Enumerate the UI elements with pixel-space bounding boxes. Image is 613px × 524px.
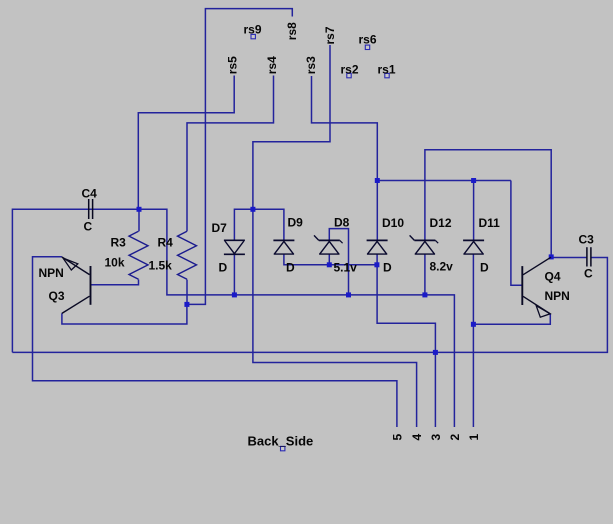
wire rs5 to R3-top node bbox=[138, 76, 234, 210]
svg-text:rs5: rs5 bbox=[226, 56, 240, 74]
wire D11 top feed bbox=[473, 181, 475, 241]
svg-text:D: D bbox=[383, 261, 392, 275]
pin square rs6 bbox=[365, 45, 369, 49]
svg-text:1.5k: 1.5k bbox=[149, 259, 173, 273]
svg-text:D: D bbox=[480, 261, 489, 275]
svg-text:rs2: rs2 bbox=[341, 62, 359, 76]
svg-text:C: C bbox=[84, 220, 93, 234]
wire D7 top to D9 top bbox=[234, 209, 284, 240]
svg-text:rs6: rs6 bbox=[359, 33, 377, 47]
wire rs3 to D10 top bbox=[312, 76, 378, 240]
diode D7 (pointing down) bbox=[224, 240, 245, 254]
svg-text:NPN: NPN bbox=[39, 266, 64, 280]
diode D9 (pointing up) bbox=[273, 240, 294, 254]
pin square rs2 bbox=[347, 73, 351, 77]
junction D11 bottom / terminal 1 bbox=[471, 322, 476, 327]
svg-text:rs7: rs7 bbox=[323, 26, 337, 44]
junction R3 top node bbox=[137, 207, 142, 212]
diode D11 (pointing up) bbox=[463, 240, 484, 254]
svg-text:rs1: rs1 bbox=[378, 62, 396, 76]
junction D10 line at row y264.8 bbox=[374, 262, 379, 267]
svg-text:rs3: rs3 bbox=[304, 56, 318, 74]
wire D7 bottom feed bbox=[233, 254, 235, 295]
diode D12 (zener, pointing up) bbox=[410, 235, 439, 254]
svg-text:D: D bbox=[219, 261, 228, 275]
junction D11 top at row y180.5 bbox=[471, 178, 476, 183]
wire row y180.5 D10-D11-Q4 bbox=[377, 180, 511, 182]
svg-text:D11: D11 bbox=[479, 216, 501, 230]
svg-text:NPN: NPN bbox=[545, 289, 570, 303]
junction D12 bottom bbox=[422, 292, 427, 297]
svg-text:C4: C4 bbox=[82, 187, 98, 201]
svg-text:3: 3 bbox=[429, 434, 443, 441]
svg-text:R3: R3 bbox=[111, 236, 127, 250]
svg-text:8.2v: 8.2v bbox=[430, 260, 454, 274]
svg-text:D12: D12 bbox=[430, 216, 452, 230]
wire R3 bottom to Q3 base bbox=[91, 280, 139, 285]
wire D8 top hook to row y295 bbox=[329, 229, 348, 295]
svg-text:5: 5 bbox=[390, 434, 404, 441]
svg-text:rs9: rs9 bbox=[244, 23, 262, 37]
wire R4 bottom to node bbox=[186, 280, 188, 305]
svg-text:D: D bbox=[286, 261, 295, 275]
svg-text:R4: R4 bbox=[158, 236, 174, 250]
wire D9 bottom and row y264.8 bbox=[284, 254, 377, 265]
wire D12 bottom feed bbox=[424, 254, 426, 295]
svg-text:D7: D7 bbox=[212, 221, 228, 235]
svg-text:10k: 10k bbox=[105, 256, 125, 270]
svg-text:D9: D9 bbox=[288, 216, 304, 230]
transistor Q4 bbox=[522, 257, 551, 317]
wire C3 left to Q4 collector node up to D12 top bbox=[425, 150, 587, 258]
wire D11 bottom to terminal 1 bbox=[472, 254, 474, 427]
wire D8 bottom feed bbox=[328, 254, 330, 265]
wire Q4 base feed bbox=[511, 181, 522, 286]
svg-text:Q3: Q3 bbox=[49, 289, 65, 303]
diode D8 (zener, pointing up) bbox=[314, 235, 343, 254]
svg-text:4: 4 bbox=[410, 434, 424, 441]
junction D8 hook at row y295 bbox=[346, 292, 351, 297]
pin square rs1 bbox=[385, 73, 389, 77]
wire D10 bottom to terminal 3 bbox=[377, 254, 435, 427]
svg-text:rs8: rs8 bbox=[285, 22, 299, 40]
pin square rs9 bbox=[251, 34, 255, 38]
wire Q3 collector to terminal 5 bbox=[33, 257, 397, 427]
svg-text:rs4: rs4 bbox=[265, 56, 279, 74]
junction D10 top at row y180.5 bbox=[375, 178, 380, 183]
junction Q4 collector node bbox=[549, 254, 554, 259]
wire R3 top feed bbox=[138, 209, 140, 231]
diode D10 (pointing up) bbox=[367, 240, 388, 254]
svg-text:2: 2 bbox=[448, 434, 462, 441]
junction rs7 wire at D7-D9 row bbox=[250, 207, 255, 212]
svg-text:C: C bbox=[584, 267, 593, 281]
resistor R4 bbox=[178, 231, 197, 279]
svg-text:D8: D8 bbox=[334, 216, 350, 230]
junction D7 bottom bbox=[232, 292, 237, 297]
svg-text:1: 1 bbox=[467, 434, 481, 441]
svg-text:Q4: Q4 bbox=[545, 270, 561, 284]
svg-text:5.1v: 5.1v bbox=[334, 261, 358, 275]
resistor R3 bbox=[129, 231, 148, 279]
wire rs7 to terminal 4 bbox=[253, 45, 417, 427]
wire row A: C4-left to C3-right bbox=[12, 258, 607, 353]
capacitor C4 bbox=[89, 199, 93, 219]
transistor Q3 bbox=[62, 257, 91, 313]
pin square Back_Side bbox=[281, 446, 285, 450]
junction R4 bottom node bbox=[184, 302, 189, 307]
svg-text:Back_Side: Back_Side bbox=[248, 434, 314, 449]
junction row A to terminal 3 bbox=[433, 350, 438, 355]
wire rs4 to R4 top bbox=[187, 76, 274, 232]
wire C4 net: left drop, row y209, drop to row y295, to terminal 2 bbox=[12, 209, 454, 427]
svg-text:D10: D10 bbox=[382, 216, 404, 230]
svg-text:C3: C3 bbox=[579, 232, 595, 246]
junction D8 anode row bbox=[327, 262, 332, 267]
wire Q3 emitter net bbox=[62, 304, 187, 324]
wire Q4 emitter to D11 node bbox=[473, 314, 550, 324]
wire rs8 top loop to R4-bottom node bbox=[187, 9, 292, 305]
capacitor C3 bbox=[587, 247, 591, 266]
